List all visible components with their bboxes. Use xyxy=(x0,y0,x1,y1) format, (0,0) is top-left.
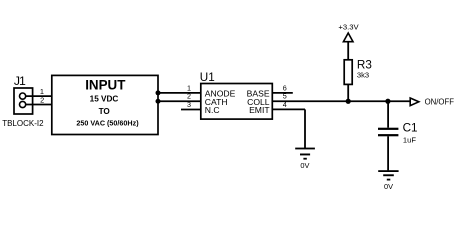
svg-text:N.C: N.C xyxy=(205,105,220,115)
junction dot at INPUT output 2 xyxy=(156,99,161,104)
svg-text:EMIT: EMIT xyxy=(249,105,270,115)
U1 pin name CATH xyxy=(205,97,228,107)
wire bus to C1 top plate xyxy=(387,101,389,127)
ground left 0V label xyxy=(300,161,309,170)
U1 pin name ANODE xyxy=(205,89,236,99)
optocoupler U1 body xyxy=(201,84,272,120)
connector J1 body xyxy=(14,88,33,114)
INPUT block body xyxy=(52,75,158,134)
U1 pin number 6 xyxy=(283,83,287,92)
svg-text:0V: 0V xyxy=(384,182,393,191)
capacitor C1 value 1uF xyxy=(403,135,416,144)
svg-text:C1: C1 xyxy=(403,122,418,135)
connector J1 pin 2 circle xyxy=(20,101,26,107)
U1 pin number 1 xyxy=(187,83,191,92)
resistor R3 body xyxy=(344,60,352,85)
INPUT block line TO xyxy=(99,107,111,116)
svg-text:ON/OFF: ON/OFF xyxy=(425,98,455,107)
svg-text:J1: J1 xyxy=(14,74,26,88)
J1 pin number 1 xyxy=(40,87,44,96)
U1 pin name BASE xyxy=(247,89,270,99)
optocoupler U1 reference label xyxy=(200,71,215,84)
svg-text:TO: TO xyxy=(99,107,111,116)
U1 pin number 3 xyxy=(187,100,191,109)
power +3.3V label xyxy=(338,23,359,32)
terminal ON/OFF label xyxy=(425,98,455,107)
svg-text:2: 2 xyxy=(40,96,44,105)
junction dot C1 bus xyxy=(385,99,390,104)
svg-text:+3.3V: +3.3V xyxy=(338,23,359,32)
svg-text:0V: 0V xyxy=(300,161,309,170)
svg-text:TBLOCK-I2: TBLOCK-I2 xyxy=(2,119,44,128)
resistor R3 value 3k3 xyxy=(357,71,369,80)
capacitor C1 reference label xyxy=(403,122,418,135)
svg-text:INPUT: INPUT xyxy=(85,78,126,93)
wire C1 to ground xyxy=(387,136,389,170)
svg-text:3k3: 3k3 xyxy=(357,71,369,80)
U1 pin number 2 xyxy=(187,92,191,101)
terminal ON/OFF arrow xyxy=(410,98,419,106)
wire stub U1 pin 3 xyxy=(181,109,201,111)
INPUT block title xyxy=(85,78,126,93)
U1 pin number 4 xyxy=(283,100,287,109)
wire J1 pin2 to INPUT block xyxy=(26,104,52,106)
junction dot R3 bus xyxy=(346,99,351,104)
capacitor C1 bottom plate xyxy=(378,134,398,136)
U1 pin name COLL xyxy=(247,97,270,107)
J1 pin number 2 xyxy=(40,96,44,105)
connector J1 label xyxy=(14,74,26,88)
resistor R3 reference label xyxy=(357,59,372,72)
ground symbol left xyxy=(295,148,315,160)
wire U1 pin 4 EMIT horizontal xyxy=(272,108,305,110)
connector J1 value TBLOCK-I2 xyxy=(2,119,44,128)
junction dot at INPUT output 1 xyxy=(156,90,161,95)
wire R3 to bus xyxy=(347,84,349,101)
INPUT block line 250 VAC (50/60Hz) xyxy=(76,119,139,128)
wire U1 pin 4 EMIT vertical to ground xyxy=(304,109,306,148)
wire INPUT to U1 pin 2 xyxy=(158,100,201,102)
ground right 0V label xyxy=(384,182,393,191)
wire stub U1 pin 6 BASE xyxy=(272,92,293,94)
wire power to R3 xyxy=(347,41,349,60)
svg-text:3: 3 xyxy=(187,100,191,109)
svg-text:15 VDC: 15 VDC xyxy=(90,95,119,104)
U1 pin number 5 xyxy=(283,92,287,101)
U1 pin name EMIT xyxy=(249,105,270,115)
svg-text:250 VAC (50/60Hz): 250 VAC (50/60Hz) xyxy=(76,119,139,128)
ground symbol right xyxy=(378,170,398,180)
wire J1 pin1 to INPUT block xyxy=(26,95,52,97)
connector J1 pin 1 circle xyxy=(20,93,26,99)
svg-text:U1: U1 xyxy=(200,71,215,84)
U1 pin name N.C xyxy=(205,105,220,115)
wire U1 pin 5 COLL bus to ON/OFF xyxy=(272,100,409,102)
capacitor C1 top plate xyxy=(378,128,398,130)
svg-text:1uF: 1uF xyxy=(403,135,416,144)
wire INPUT to U1 pin 1 xyxy=(158,92,201,94)
power +3.3V arrow symbol xyxy=(343,33,353,42)
INPUT block line 15 VDC xyxy=(90,95,119,104)
